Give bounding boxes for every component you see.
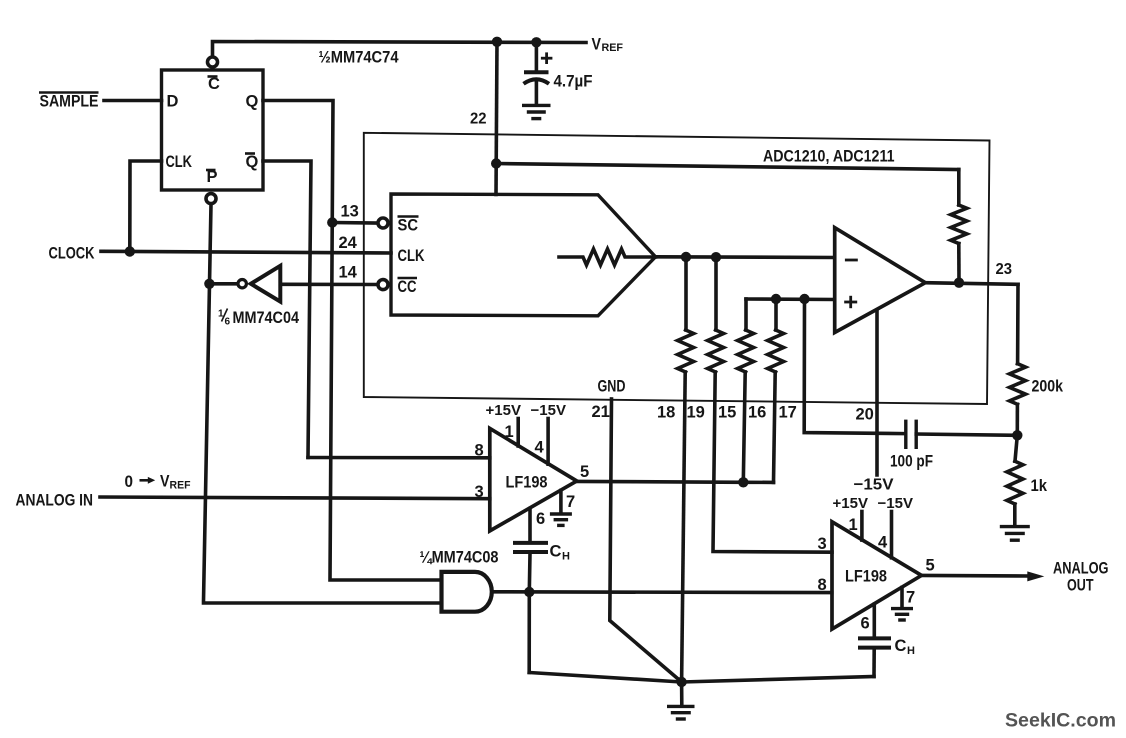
label GND (598, 378, 626, 396)
label 200k (1032, 377, 1064, 396)
op-amp U3 comparator (835, 228, 926, 333)
ground below 1k (1000, 527, 1030, 541)
node junction on VREF rail (pin 22 tap) (492, 37, 502, 47)
svg-text:4.7µF: 4.7µF (554, 73, 593, 91)
pin CC bubble (378, 280, 388, 290)
pin label D (167, 93, 179, 111)
svg-text:5: 5 (926, 557, 935, 575)
label pin 20 (856, 406, 874, 424)
svg-text:ADC1210, ADC1211: ADC1210, ADC1211 (763, 147, 895, 166)
label 100 pF (890, 453, 933, 471)
svg-text:+15V: +15V (833, 495, 868, 512)
svg-text:REF: REF (170, 479, 191, 491)
svg-text:CLK: CLK (166, 153, 193, 171)
label pin 6 (U4) (536, 510, 545, 528)
ground pin 7 (U6) (891, 609, 913, 620)
svg-text:OUT: OUT (1067, 577, 1094, 595)
label 1/2MM74C74 (319, 48, 399, 67)
comparator plus symbol (846, 297, 856, 307)
wire Q-bar down to S/H logic (263, 161, 311, 458)
inverter U2 MM74C04 output bubble (238, 280, 246, 288)
inverter U2 MM74C04 triangle (251, 266, 280, 302)
op-amp U6 LF198 output sample-hold (832, 522, 922, 629)
wire 100pF column (pin 17) (804, 299, 903, 434)
label pin 21 (592, 403, 610, 421)
svg-text:14: 14 (339, 264, 358, 282)
node junction minus line / R18 (681, 252, 691, 262)
node junction on VREF rail (capacitor tap) (531, 37, 541, 47)
label pin 16 (748, 404, 766, 422)
capacitor C1 plus sign (542, 54, 551, 63)
svg-text:13: 13 (341, 203, 359, 221)
svg-text:5: 5 (580, 463, 589, 481)
label LF198 (U6) (845, 567, 887, 586)
svg-text:GND: GND (598, 378, 626, 396)
wire CH bottom to ground bus (527, 554, 531, 673)
svg-text:CLK: CLK (398, 247, 425, 265)
node junction 200k/1k/100pF (1012, 430, 1022, 440)
svg-text:ANALOG IN: ANALOG IN (16, 492, 94, 510)
label 1/6MM74C04 (218, 308, 299, 328)
svg-text:LF198: LF198 (845, 567, 887, 586)
DAC block of ADC1210 (391, 194, 656, 316)
svg-text:6: 6 (861, 615, 870, 633)
wire CH bottom column (U6) (872, 649, 876, 677)
label pin 8 (U4) (475, 442, 484, 460)
svg-text:SC: SC (398, 217, 419, 235)
node VREF terminal label (592, 36, 624, 54)
svg-text:C: C (895, 637, 907, 655)
op-amp U4 LF198 sample-hold (490, 428, 577, 531)
wire AND output to pin 8 (U6) (493, 590, 832, 594)
wire ground bus (529, 673, 874, 683)
svg-text:V: V (160, 473, 170, 491)
wire inverter input from CC pin (281, 282, 378, 286)
pin label C-bar (208, 75, 221, 93)
label LF198 (U4) (506, 473, 548, 492)
svg-text:V: V (592, 36, 602, 54)
label 1/4MM74C08 (420, 548, 499, 567)
pin label Q-bar (245, 153, 259, 171)
wire pin 1 supply (U4) (516, 419, 520, 447)
capacitor C1 4.7uF electrolytic (524, 42, 550, 104)
resistor R16 ladder leg (768, 299, 784, 482)
resistor R15 ladder leg (738, 299, 754, 482)
ground main symbol (667, 706, 695, 719)
wire ground node stem (680, 682, 684, 705)
svg-text:H: H (562, 551, 570, 563)
resistor R1 200k (1010, 284, 1026, 435)
svg-text:CC: CC (398, 278, 417, 296)
pin label CLK (U1) (166, 153, 193, 171)
wire pin 21 to ground node (610, 399, 682, 682)
wire SC line from Q column (332, 221, 377, 225)
svg-text:Q: Q (246, 93, 259, 111)
wire ANALOG IN to pin 3 (100, 497, 490, 499)
label pin 23 (996, 261, 1013, 278)
wire pin 20 to -15V (875, 311, 879, 476)
svg-text:Q: Q (246, 153, 259, 171)
capacitor CH (U6) (860, 638, 889, 647)
label -15V (U4) (531, 402, 566, 419)
svg-text:17: 17 (779, 404, 797, 422)
svg-text:19: 19 (687, 404, 705, 422)
svg-text:16: 16 (748, 404, 766, 422)
svg-text:7: 7 (906, 589, 915, 607)
svg-text:8: 8 (818, 576, 827, 594)
label pin 13 (341, 203, 359, 221)
svg-text:CLOCK: CLOCK (49, 245, 95, 263)
svg-text:REF: REF (602, 42, 624, 54)
svg-text:1k: 1k (1031, 476, 1048, 495)
label pin 15 (718, 404, 736, 422)
svg-text:6: 6 (225, 317, 231, 328)
wire pin 22 column (496, 42, 497, 195)
svg-text:4: 4 (535, 439, 545, 457)
node junction pin22 / reference line (491, 158, 501, 168)
label CH (U4) (550, 543, 571, 563)
ground below C1 (522, 105, 551, 118)
wire pin 8 input line (308, 456, 490, 460)
wire P-bar column to AND gate (204, 205, 442, 604)
label pin 8 (U6) (818, 576, 827, 594)
pin SC bubble (378, 218, 388, 228)
label pin 5 (U6) (926, 557, 935, 575)
label +15V (U4) (486, 402, 521, 419)
svg-text:15: 15 (718, 404, 736, 422)
svg-text:MM74C04: MM74C04 (233, 308, 300, 327)
label pin 1 (U4) (505, 423, 514, 441)
svg-text:ANALOG: ANALOG (1053, 560, 1109, 578)
svg-text:200k: 200k (1032, 377, 1064, 396)
wire inverter output stub (209, 282, 236, 286)
resistor R19 ladder leg (708, 257, 832, 552)
svg-text:1: 1 (849, 516, 858, 534)
svg-text:18: 18 (657, 404, 675, 422)
label CH (U6) (895, 637, 916, 657)
label pin 17 (779, 404, 797, 422)
pin label Q (246, 93, 259, 111)
label pin 6 (U6) (861, 615, 870, 633)
svg-text:LF198: LF198 (506, 473, 548, 492)
svg-text:7: 7 (566, 493, 575, 511)
watermark SeekIC.com (1005, 710, 1116, 732)
pin P-bar bubble of U1 (206, 194, 216, 204)
label pin 7 (U4) (566, 493, 575, 511)
label SAMPLE (39, 93, 99, 111)
label ADC1210, ADC1211 (763, 147, 895, 166)
label pin 14 (339, 264, 358, 282)
label pin 5 (U4) (580, 463, 589, 481)
wire pin 4 supply (U6) (890, 512, 894, 558)
svg-text:D: D (167, 93, 179, 111)
ADC1210 outer box (364, 133, 990, 404)
svg-text:3: 3 (818, 535, 827, 553)
label -15V pin20 (854, 477, 894, 494)
resistor R18 ladder leg (678, 257, 694, 682)
label pin 4 (U4) (535, 439, 545, 457)
pin label CLK (DAC) (398, 247, 425, 265)
svg-text:−15V: −15V (854, 477, 894, 494)
wire DAC output to comparator minus (656, 255, 835, 259)
label ANALOG IN (16, 492, 94, 510)
resistor internal DAC ladder (559, 249, 656, 265)
label +15V (U6) (833, 495, 868, 512)
label ANALOG OUT (1053, 560, 1109, 595)
resistor R2 1k (1007, 435, 1023, 524)
svg-text:H: H (907, 645, 915, 657)
node junction plus line / 100pF column (799, 294, 809, 304)
svg-text:21: 21 (592, 403, 610, 421)
wire pin 7 ground stub (U4) (559, 491, 563, 513)
label -15V (U6) (878, 495, 913, 512)
label pin 7 (U6) (906, 589, 915, 607)
svg-text:23: 23 (996, 261, 1013, 278)
wire reference line to feedback resistor (496, 164, 959, 170)
label pin 3 (U6) (818, 535, 827, 553)
node junction CLOCK / U1 CLK (125, 246, 135, 256)
wire pin 7 ground stub (U6) (900, 588, 904, 608)
wire pin 6 to CH (U6) (872, 604, 876, 636)
node junction inverter output / P-bar column (204, 279, 214, 289)
resistor R-feedback (951, 170, 967, 283)
node junction pin5 / R15 leg (738, 477, 748, 487)
wire CLOCK up to U1 CLK pin (130, 161, 162, 252)
label pin 22 (470, 111, 487, 128)
AND gate U5 MM74C08 (442, 572, 492, 612)
svg-text:SAMPLE: SAMPLE (40, 93, 99, 111)
label 4.7uF (554, 73, 593, 91)
wire pin 4 supply (U4) (546, 419, 550, 465)
svg-text:½MM74C74: ½MM74C74 (319, 48, 399, 67)
label 0 to VREF (125, 473, 191, 492)
label pin 3 (U4) (475, 483, 484, 501)
node junction AND output / CH column (524, 587, 534, 597)
svg-text:−15V: −15V (531, 402, 566, 419)
label CLOCK (49, 245, 95, 263)
svg-text:−15V: −15V (878, 495, 913, 512)
wire VREF top rail (213, 42, 587, 56)
pin label P-bar (206, 168, 218, 186)
svg-text:0: 0 (125, 473, 134, 491)
node junction minus line / R19 (711, 252, 721, 262)
pin C-bar bubble of U1 (208, 57, 218, 67)
wire pin 5 output (U4) (577, 481, 774, 482)
capacitor C2 100pF (906, 421, 1018, 447)
svg-text:22: 22 (470, 111, 487, 128)
wire SAMPLE to D (104, 99, 162, 103)
svg-text:4: 4 (878, 534, 888, 552)
pin label SC-bar (398, 217, 419, 235)
svg-text:6: 6 (536, 510, 545, 528)
svg-text:+15V: +15V (486, 402, 521, 419)
svg-text:24: 24 (339, 234, 358, 252)
svg-text:¼MM74C08: ¼MM74C08 (420, 548, 499, 567)
svg-text:1: 1 (505, 423, 514, 441)
svg-text:C: C (550, 543, 562, 561)
flip-flop U1 MM74C74 body (162, 70, 264, 190)
svg-text:100 pF: 100 pF (890, 453, 933, 471)
label pin 1 (U6) (849, 516, 858, 534)
node junction plus line / R16 (771, 294, 781, 304)
node ground junction (676, 677, 686, 687)
wire ANALOG OUT with arrow (922, 571, 1045, 581)
wire pin 1 supply (U6) (860, 512, 864, 541)
svg-text:20: 20 (856, 406, 874, 424)
wire plus input line (746, 297, 835, 301)
ground pin 7 (U4) (550, 514, 572, 525)
label pin 18 (657, 404, 675, 422)
svg-text:SeekIC.com: SeekIC.com (1005, 710, 1116, 732)
label 1k (1031, 476, 1048, 495)
label pin 19 (687, 404, 705, 422)
wire pin 6 to CH (U4) (528, 509, 532, 542)
node junction Q column / SC line (327, 217, 337, 227)
comparator minus symbol (846, 259, 856, 262)
label pin 4 (U6) (878, 534, 888, 552)
capacitor CH (U4) (515, 543, 546, 552)
label pin 24 (339, 234, 358, 252)
wire Q to node A column (263, 101, 442, 581)
wire comparator output to pin 23 (925, 283, 1018, 285)
node junction output / feedback (954, 278, 964, 288)
pin label CC-bar (398, 278, 418, 296)
wire CLOCK input (101, 251, 391, 253)
